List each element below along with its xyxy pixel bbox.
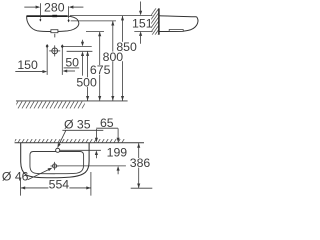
svg-text:Ø 46: Ø 46 [2,170,29,184]
svg-text:151: 151 [132,16,153,30]
svg-text:199: 199 [107,145,128,159]
svg-text:280: 280 [44,1,65,15]
svg-text:800: 800 [103,50,124,64]
svg-text:50: 50 [65,55,79,69]
svg-text:65: 65 [100,116,114,130]
svg-text:Ø 35: Ø 35 [64,118,91,132]
svg-text:500: 500 [76,75,97,89]
svg-text:554: 554 [49,177,70,191]
svg-text:150: 150 [17,58,38,72]
svg-text:386: 386 [130,156,151,170]
